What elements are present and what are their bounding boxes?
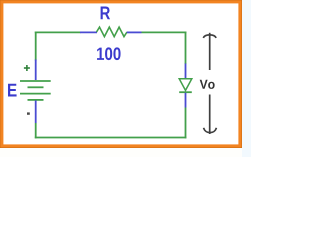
- wire resistor right lead: [127, 31, 142, 33]
- wire battery bottom lead: [35, 101, 37, 124]
- wire top left segment: [35, 31, 81, 33]
- wire resistor left lead: [80, 31, 97, 33]
- battery minus sign: [27, 112, 30, 114]
- battery E plate 3: [20, 93, 51, 95]
- arrow down (Vo polarity): [204, 95, 217, 135]
- battery E plate 2: [28, 86, 44, 88]
- diode D1 triangle: [179, 79, 192, 91]
- label 100: [97, 47, 121, 60]
- wire battery top lead: [35, 60, 37, 81]
- wire left vertical lower: [35, 123, 37, 138]
- label Vo: [200, 80, 215, 89]
- battery E plate 1: [20, 80, 51, 82]
- wire diode bottom lead: [185, 93, 187, 108]
- wire diode top lead: [185, 64, 187, 80]
- wire right vertical upper: [185, 32, 187, 65]
- wire bottom: [35, 137, 187, 139]
- wire left vertical upper: [35, 32, 37, 61]
- battery plus sign: [24, 65, 30, 71]
- wire top right segment: [142, 31, 187, 33]
- wire right vertical lower: [185, 108, 187, 139]
- label R: [101, 7, 110, 20]
- label E: [8, 84, 17, 97]
- diode D1 cathode bar: [179, 91, 192, 93]
- arrow up (Vo polarity): [203, 33, 216, 70]
- resistor R: [97, 27, 128, 36]
- battery E plate 4: [28, 99, 44, 101]
